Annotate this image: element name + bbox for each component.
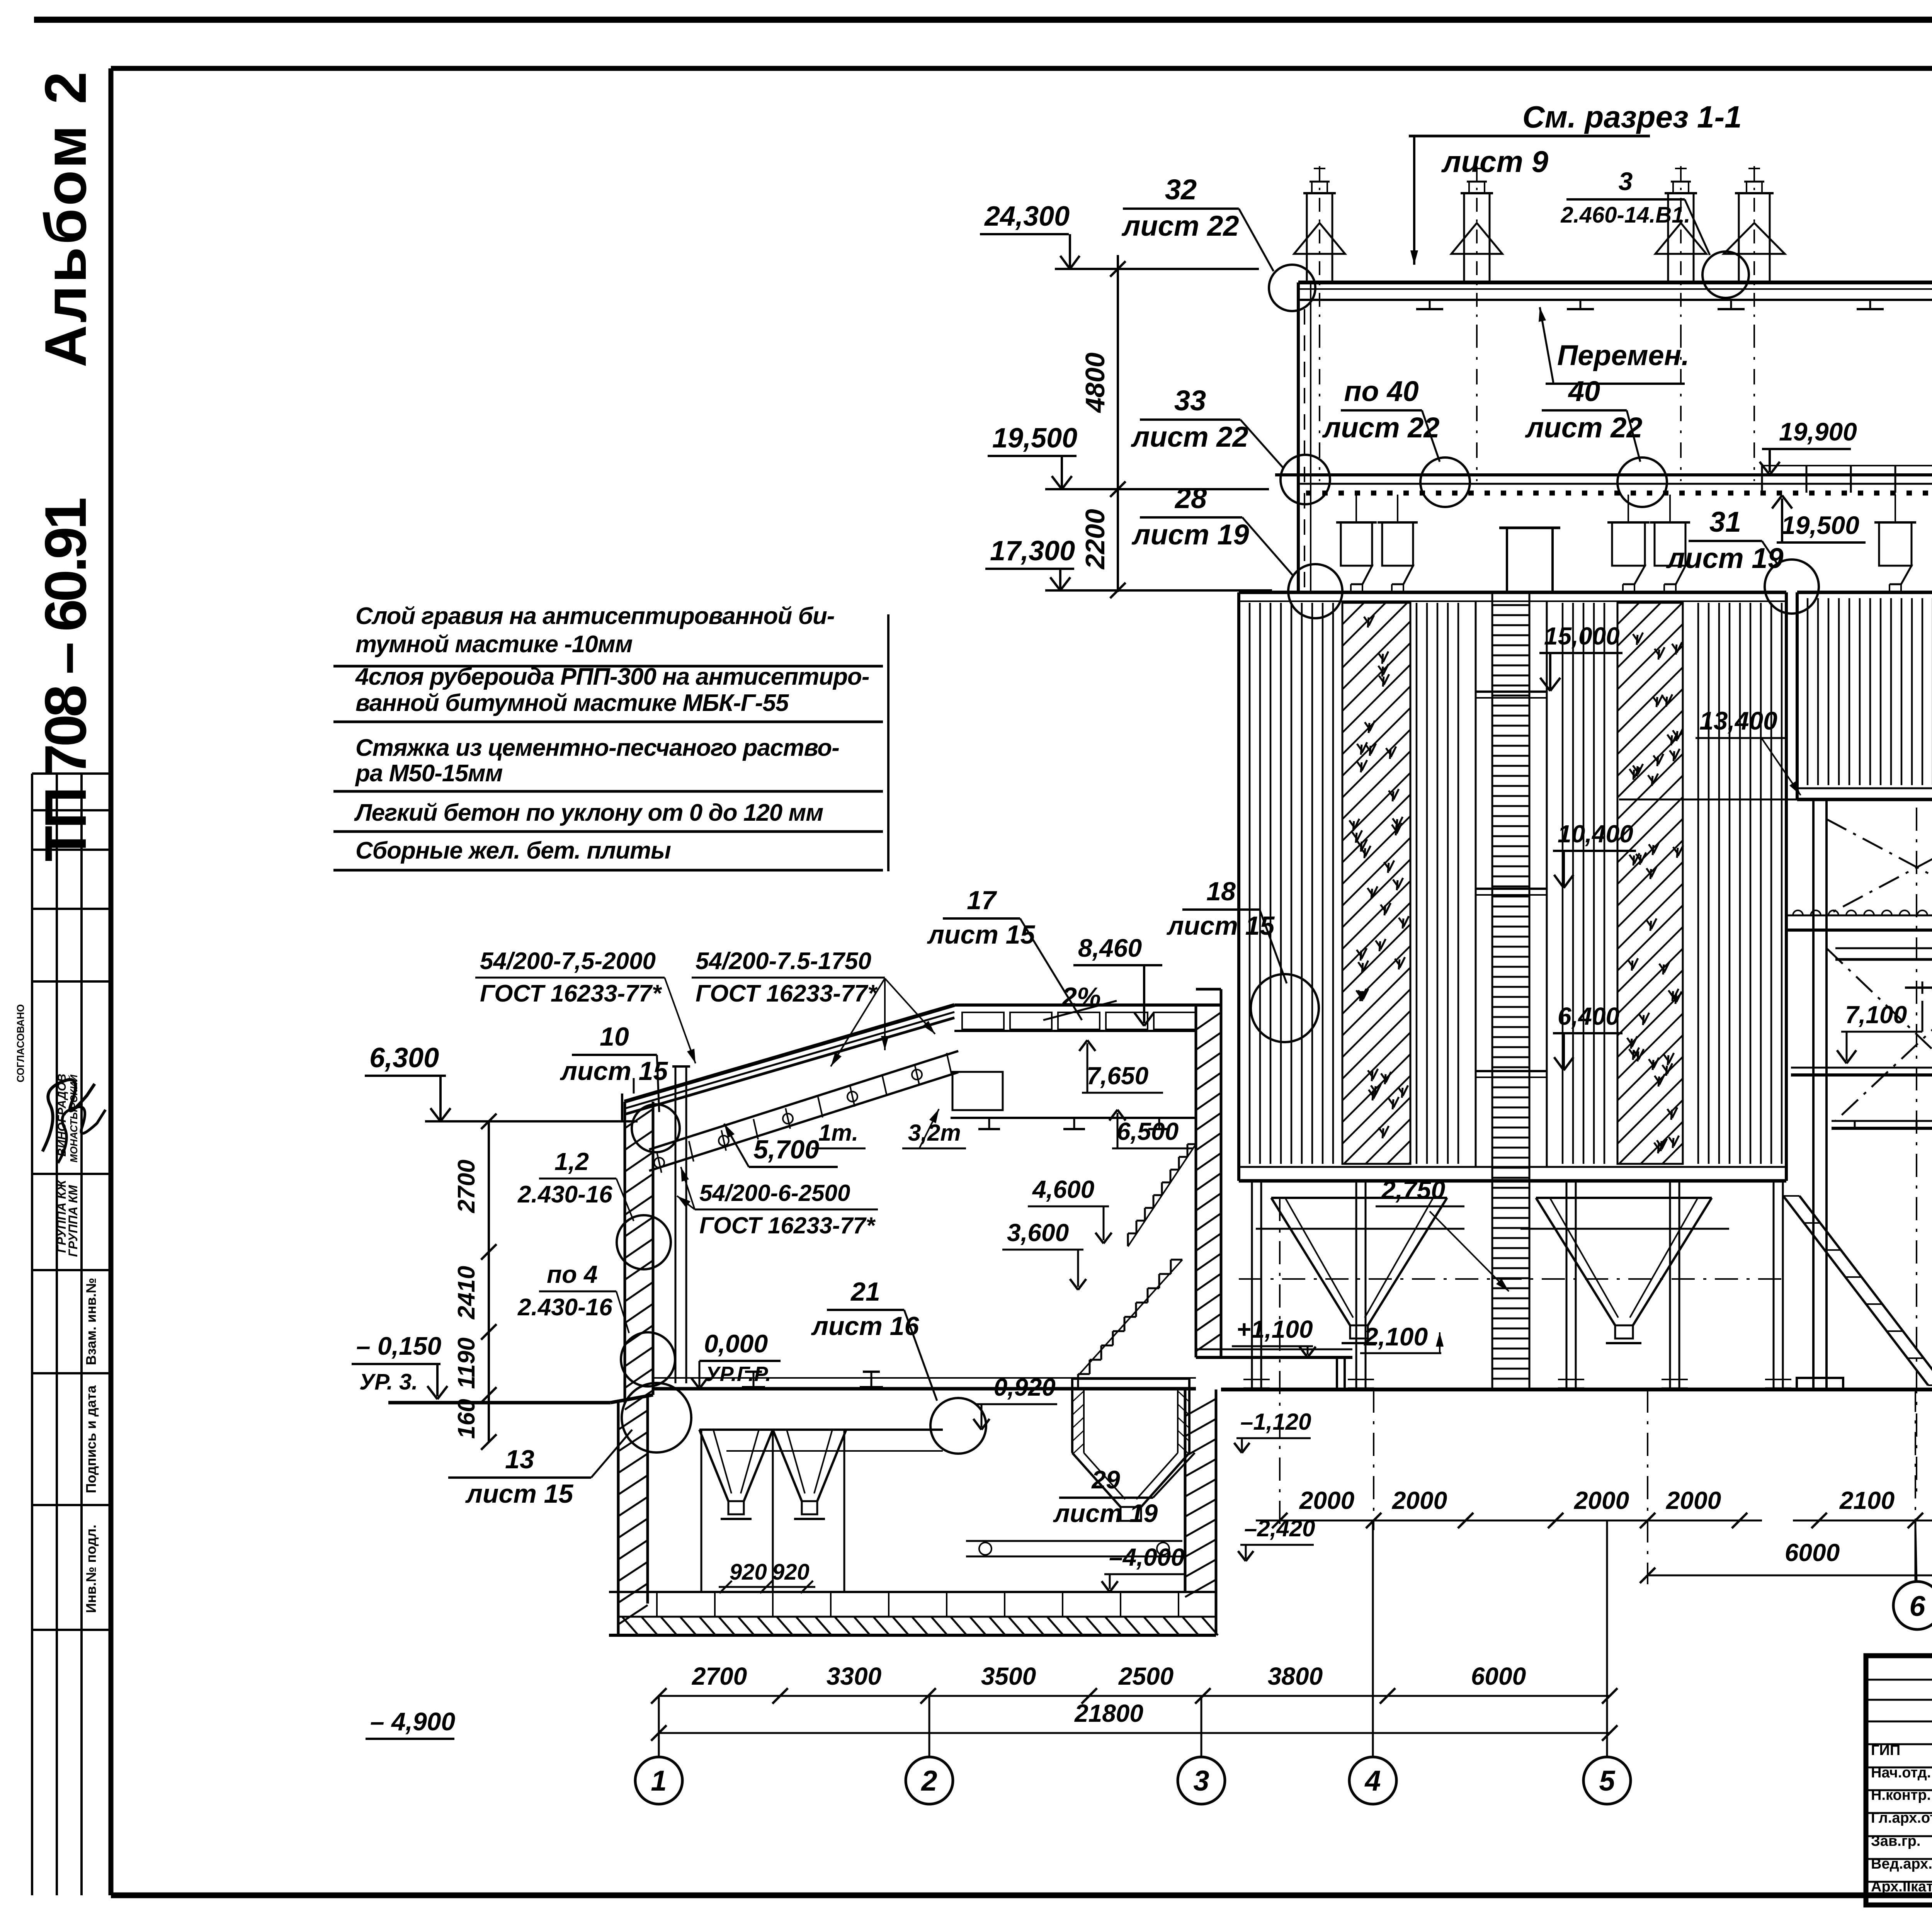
svg-text:лист 19: лист 19: [1053, 1499, 1158, 1527]
svg-text:2200: 2200: [1080, 509, 1110, 570]
svg-text:лист 22: лист 22: [1525, 412, 1642, 444]
svg-text:6: 6: [1909, 1590, 1925, 1622]
svg-text:3,2m: 3,2m: [908, 1120, 961, 1146]
svg-text:160: 160: [453, 1399, 480, 1439]
svg-text:32: 32: [1165, 173, 1197, 206]
svg-text:лист 22: лист 22: [1131, 421, 1248, 453]
svg-text:2000: 2000: [1392, 1486, 1447, 1514]
svg-text:2700: 2700: [692, 1662, 747, 1690]
svg-text:10,400: 10,400: [1558, 820, 1633, 848]
svg-text:17: 17: [967, 886, 997, 915]
svg-text:2410: 2410: [453, 1266, 480, 1320]
svg-text:– 0,150: – 0,150: [356, 1332, 441, 1360]
svg-text:– 4,900: – 4,900: [370, 1707, 455, 1736]
svg-text:8,460: 8,460: [1078, 934, 1142, 962]
svg-text:МОНАСТЫРСКИЙ: МОНАСТЫРСКИЙ: [68, 1074, 80, 1163]
svg-text:17,300: 17,300: [990, 536, 1075, 566]
svg-text:лист 15: лист 15: [560, 1056, 668, 1086]
svg-text:Сборные жел. бет. плиты: Сборные жел. бет. плиты: [355, 837, 671, 864]
svg-text:ТП 708 – 60.91: ТП 708 – 60.91: [33, 498, 99, 862]
svg-text:13,400: 13,400: [1699, 706, 1777, 735]
svg-text:33: 33: [1174, 384, 1206, 417]
svg-text:ГОСТ 16233-77*: ГОСТ 16233-77*: [696, 980, 878, 1007]
svg-text:5: 5: [1599, 1765, 1616, 1797]
svg-text:6,500: 6,500: [1117, 1117, 1179, 1145]
svg-text:3500: 3500: [981, 1662, 1036, 1690]
svg-text:19,500: 19,500: [1781, 511, 1859, 539]
svg-text:тумной мастике -10мм: тумной мастике -10мм: [355, 631, 633, 658]
svg-text:–0,920: –0,920: [980, 1373, 1056, 1401]
svg-text:13: 13: [505, 1445, 534, 1474]
svg-text:3: 3: [1193, 1765, 1209, 1797]
svg-text:2000: 2000: [1666, 1486, 1721, 1514]
svg-text:2000: 2000: [1299, 1486, 1354, 1514]
svg-text:Альбом 2: Альбом 2: [33, 69, 99, 367]
svg-text:2.460-14.В1.: 2.460-14.В1.: [1560, 202, 1690, 228]
svg-text:Стяжка из цементно-песчаного р: Стяжка из цементно-песчаного раство-: [355, 735, 839, 761]
svg-text:920: 920: [772, 1560, 810, 1585]
svg-text:лист 22: лист 22: [1322, 412, 1439, 444]
svg-text:15,000: 15,000: [1544, 622, 1620, 650]
svg-text:по 40: по 40: [1344, 375, 1418, 407]
svg-text:Вед.арх.: Вед.арх.: [1871, 1856, 1932, 1872]
svg-text:ра М50-15мм: ра М50-15мм: [355, 760, 503, 787]
svg-text:Перемен.: Перемен.: [1557, 339, 1689, 371]
svg-text:ГОСТ 16233-77*: ГОСТ 16233-77*: [699, 1213, 876, 1238]
svg-text:18: 18: [1206, 877, 1236, 906]
svg-text:4,600: 4,600: [1032, 1175, 1094, 1203]
svg-text:2,750: 2,750: [1381, 1175, 1445, 1204]
svg-text:Подпись и дата: Подпись и дата: [83, 1385, 99, 1493]
svg-text:по 4: по 4: [547, 1260, 598, 1288]
svg-text:Инв.№ подл.: Инв.№ подл.: [83, 1525, 99, 1613]
svg-text:3,600: 3,600: [1007, 1219, 1069, 1247]
svg-text:ГОСТ 16233-77*: ГОСТ 16233-77*: [480, 980, 662, 1007]
svg-text:2100: 2100: [1839, 1486, 1895, 1514]
svg-text:ванной битумной мастике МБК-Г-: ванной битумной мастике МБК-Г-55: [355, 690, 789, 716]
svg-text:Арх.IIкат.: Арх.IIкат.: [1871, 1879, 1932, 1895]
svg-text:6000: 6000: [1785, 1539, 1840, 1566]
svg-text:лист 9: лист 9: [1441, 145, 1549, 179]
svg-text:54/200-7.5-1750: 54/200-7.5-1750: [696, 948, 871, 975]
svg-text:1: 1: [651, 1765, 667, 1797]
svg-text:10: 10: [600, 1022, 629, 1051]
svg-text:СОГЛАСОВАНО: СОГЛАСОВАНО: [15, 1004, 26, 1082]
svg-text:2500: 2500: [1118, 1662, 1173, 1690]
svg-text:2.430-16: 2.430-16: [517, 1181, 612, 1208]
svg-text:5,700: 5,700: [753, 1135, 819, 1164]
svg-text:2.430-16: 2.430-16: [517, 1294, 612, 1321]
svg-text:–4,000: –4,000: [1109, 1543, 1185, 1571]
svg-text:31: 31: [1709, 506, 1741, 538]
svg-text:6,300: 6,300: [369, 1043, 439, 1073]
svg-text:1190: 1190: [453, 1337, 480, 1389]
svg-text:2000: 2000: [1574, 1486, 1629, 1514]
svg-text:Зав.гр.: Зав.гр.: [1871, 1833, 1920, 1849]
svg-text:1m.: 1m.: [818, 1120, 858, 1146]
svg-text:1,2: 1,2: [554, 1148, 589, 1175]
svg-text:2700: 2700: [453, 1160, 480, 1213]
svg-text:+1,100: +1,100: [1236, 1315, 1313, 1343]
svg-text:2: 2: [920, 1765, 937, 1797]
svg-text:19,500: 19,500: [992, 423, 1077, 454]
svg-text:См. разрез 1-1: См. разрез 1-1: [1522, 100, 1742, 134]
svg-text:6000: 6000: [1471, 1662, 1526, 1690]
svg-text:Гл.арх.отд.: Гл.арх.отд.: [1871, 1810, 1932, 1826]
svg-text:920: 920: [730, 1560, 767, 1585]
svg-text:лист 15: лист 15: [1167, 911, 1275, 940]
svg-text:3300: 3300: [827, 1662, 881, 1690]
svg-text:54/200-6-2500: 54/200-6-2500: [699, 1180, 850, 1206]
svg-text:–1,120: –1,120: [1240, 1409, 1311, 1435]
svg-text:4800: 4800: [1080, 352, 1110, 413]
svg-text:лист 16: лист 16: [811, 1311, 920, 1341]
svg-text:6,400: 6,400: [1558, 1002, 1619, 1030]
svg-text:21: 21: [850, 1277, 880, 1306]
svg-text:Легкий бетон по уклону от 0 д: Легкий бетон по уклону от 0 до 120 мм: [354, 799, 823, 826]
svg-text:лист 19: лист 19: [1131, 519, 1249, 551]
svg-text:28: 28: [1174, 482, 1207, 514]
svg-text:Слой гравия на антисептированн: Слой гравия на антисептированной би-: [355, 603, 835, 629]
svg-text:7,650: 7,650: [1087, 1062, 1148, 1090]
svg-text:2,100: 2,100: [1363, 1322, 1428, 1351]
svg-text:ГРУППА КМ: ГРУППА КМ: [66, 1185, 80, 1257]
svg-text:7,100: 7,100: [1845, 1001, 1907, 1029]
svg-text:0,000: 0,000: [704, 1329, 768, 1358]
svg-text:лист 15: лист 15: [465, 1479, 574, 1509]
svg-text:лист 22: лист 22: [1121, 210, 1239, 242]
svg-text:ГИП: ГИП: [1871, 1742, 1900, 1759]
svg-text:3800: 3800: [1268, 1662, 1323, 1690]
svg-text:21800: 21800: [1074, 1699, 1143, 1727]
svg-text:УР.Г.Р.: УР.Г.Р.: [706, 1362, 771, 1386]
svg-text:29: 29: [1091, 1465, 1120, 1494]
svg-text:24,300: 24,300: [984, 201, 1070, 232]
svg-text:Н.контр.: Н.контр.: [1871, 1787, 1931, 1803]
svg-text:3: 3: [1619, 167, 1633, 196]
svg-text:54/200-7,5-2000: 54/200-7,5-2000: [480, 948, 656, 975]
svg-text:лист 15: лист 15: [927, 920, 1036, 949]
svg-text:19,900: 19,900: [1779, 417, 1857, 446]
svg-text:Взам. инв.№: Взам. инв.№: [83, 1278, 99, 1365]
svg-text:Нач.отд.: Нач.отд.: [1871, 1765, 1931, 1781]
svg-text:4: 4: [1364, 1765, 1381, 1797]
svg-text:40: 40: [1568, 375, 1600, 407]
svg-text:УР. 3.: УР. 3.: [359, 1369, 418, 1395]
